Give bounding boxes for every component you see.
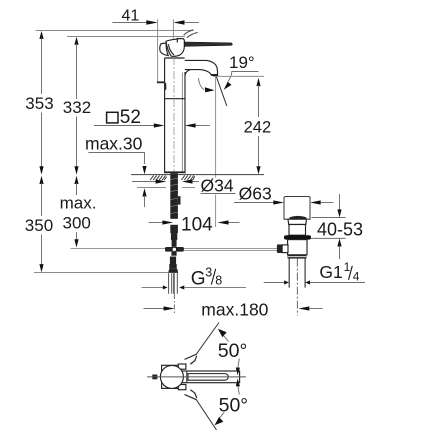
pop-up rod (71, 247, 278, 249)
svg-text:G1: G1 (319, 262, 342, 282)
svg-text:242: 242 (244, 119, 272, 137)
svg-text:50°: 50° (219, 394, 249, 416)
faucet head: cartridge cap (160, 30, 233, 57)
dimension 41 (112, 7, 199, 81)
drain-rod attachment nub (178, 196, 181, 204)
reference line cap-top level (67, 36, 185, 38)
dimension G3/8 (142, 266, 246, 290)
svg-text:Ø63: Ø63 (239, 183, 272, 203)
top view: swivel diagonal upper (50°) (185, 323, 229, 364)
dimension 242 (244, 78, 272, 174)
dimension max.300 (60, 176, 97, 248)
svg-text:4: 4 (353, 269, 360, 283)
top view: lever mount tabs (178, 364, 186, 369)
dimension square52 (94, 107, 210, 128)
svg-text:40-53: 40-53 (317, 219, 363, 239)
dimension Ø63 (234, 183, 334, 204)
deck hatching right (181, 175, 194, 180)
svg-text:104: 104 (181, 214, 213, 235)
svg-text:350: 350 (25, 216, 53, 235)
flexible hoses (169, 273, 178, 294)
svg-text:Ø34: Ø34 (201, 175, 234, 195)
lever handle rod (184, 42, 232, 46)
dimension G1 1/4 (264, 260, 365, 285)
stream angle arc + arrowhead (198, 78, 204, 90)
faucet body column (157, 57, 186, 173)
svg-text:50°: 50° (218, 340, 248, 362)
dimension max.30 (85, 133, 147, 207)
spout reach extension line (104) (215, 77, 217, 228)
spout-tip reference line for 242 (213, 75, 264, 77)
svg-text:8: 8 (215, 274, 222, 288)
drain flange (pop-up waste, Ø63) (277, 197, 311, 259)
top view: body circle (160, 365, 183, 388)
dimension 332 (63, 37, 91, 175)
base plate (164, 171, 186, 173)
spout (185, 60, 227, 106)
deck underside lines (137, 187, 166, 189)
svg-text:3: 3 (205, 266, 212, 280)
rear nub on body (157, 81, 167, 89)
dimension 19deg label (224, 53, 259, 90)
top view: body square (147, 364, 246, 390)
aerator tick at spout outlet (211, 74, 218, 76)
hose end reference line (350) (34, 272, 168, 274)
top view: spout stub (152, 375, 157, 380)
top view: lever bar (180, 371, 239, 383)
svg-text:G: G (191, 269, 206, 290)
tee fitting (165, 247, 184, 256)
svg-text:max.180: max.180 (201, 300, 268, 320)
svg-text:353: 353 (25, 94, 53, 113)
top view centerline (147, 376, 246, 378)
dimension 104 (149, 214, 240, 235)
water stream line (216, 77, 226, 106)
dimension max.180 (144, 300, 323, 320)
top view: swivel diagonal lower (50°) (185, 390, 224, 430)
overflow/rod nub on drain (277, 244, 282, 253)
reference line lever-top level (36, 30, 194, 32)
hose fittings (168, 257, 178, 273)
faucet shank (threaded) (170, 173, 180, 247)
svg-text:1: 1 (344, 260, 351, 274)
50° labels and angle arc arrows (218, 340, 248, 416)
svg-text:max.: max. (60, 193, 97, 212)
cap inner curve (168, 44, 174, 55)
dimension 353 (25, 31, 53, 175)
lever boss divider (176, 39, 178, 43)
svg-text:41: 41 (122, 7, 140, 24)
body centerline (173, 57, 175, 172)
head left flap (160, 43, 169, 56)
locknut (288, 255, 307, 259)
dimension 40-53 (310, 194, 363, 259)
svg-text:19°: 19° (229, 53, 255, 72)
svg-text:332: 332 (63, 98, 91, 117)
dimension 350 (25, 176, 53, 273)
top view: lever inner slot (188, 374, 228, 381)
svg-text:max.30: max.30 (85, 133, 143, 153)
deck hatching left (150, 175, 166, 180)
drain tailpipe (G1 1/4) (289, 259, 305, 316)
svg-text:300: 300 (63, 214, 91, 233)
dimension Ø34 (132, 175, 235, 195)
mounting deck surface line (131, 174, 264, 176)
lever raised-position break marks (184, 30, 194, 35)
